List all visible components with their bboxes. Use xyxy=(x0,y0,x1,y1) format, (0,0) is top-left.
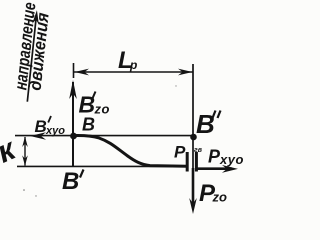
dimension Lp: left extension tick xyxy=(73,63,75,78)
node B'' junction dot xyxy=(190,134,197,141)
vector Pxyo (right) xyxy=(197,167,232,170)
svg-text:хуо: хуо xyxy=(45,125,65,137)
top horizontal line xyxy=(15,135,193,137)
dimension Lp: right arrowhead xyxy=(178,69,193,76)
svg-text:В: В xyxy=(196,109,215,139)
right vertical line xyxy=(192,64,194,170)
propeller symbol bars xyxy=(186,152,189,172)
svg-text:гв: гв xyxy=(194,147,203,154)
svg-text:хуо: хуо xyxy=(219,152,243,167)
svg-text:p: p xyxy=(129,58,137,72)
vector B'xyo (left along top line) xyxy=(30,132,46,140)
trajectory curve xyxy=(73,136,187,167)
svg-text:В: В xyxy=(35,117,47,136)
rotated caption: направление движения xyxy=(10,1,53,92)
bottom horizontal line xyxy=(17,165,187,167)
vector B'zo (vertical up from B) xyxy=(72,82,74,167)
dimension k xyxy=(24,137,26,166)
caption arrow xyxy=(24,10,40,102)
dust specks xyxy=(23,189,25,191)
svg-text:В: В xyxy=(62,168,79,195)
svg-text:о: о xyxy=(102,102,110,117)
dimension Lp: line xyxy=(74,71,193,73)
node B xyxy=(70,133,77,140)
svg-text:zо: zо xyxy=(212,190,228,205)
svg-text:В: В xyxy=(82,115,95,135)
dimension Lp: left arrowhead xyxy=(75,69,90,76)
vector Pzo (down) xyxy=(192,168,195,208)
svg-text:Р: Р xyxy=(174,143,186,162)
